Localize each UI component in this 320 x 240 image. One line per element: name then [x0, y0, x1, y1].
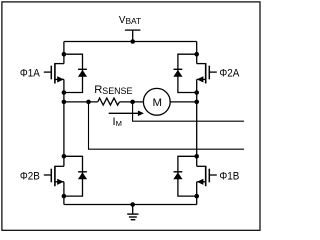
junction Q1B drain/diode	[194, 154, 199, 159]
wire top rail	[64, 41, 197, 43]
junction Q1A drain/diode	[62, 52, 67, 57]
ground	[127, 202, 138, 220]
VBAT terminal bar	[125, 29, 140, 31]
junction sense tap left	[86, 100, 91, 105]
wire left leg lower (source Q2B to rail)	[63, 182, 65, 205]
junction Q2B drain/diode	[62, 154, 67, 159]
diode D2A branch wires	[178, 54, 197, 92]
transistor Phi2B (bottom-left MOSFET)	[44, 166, 64, 186]
junction Q2A source/diode	[194, 90, 199, 95]
transistor Phi1B (bottom-right MOSFET)	[197, 166, 217, 186]
wire left leg upper (drain lead Q1A)	[63, 42, 65, 64]
diode D1B	[173, 172, 182, 179]
wire sense tap upper (from RSENSE right to edge)	[133, 102, 244, 121]
wire right leg upper (drain lead Q2A)	[196, 42, 198, 64]
junction Q2A drain/diode	[194, 52, 199, 57]
current arrow IM	[109, 111, 144, 117]
svg-text:M: M	[153, 97, 163, 109]
svg-text:Φ1B: Φ1B	[219, 170, 239, 182]
wire bottom rail	[64, 204, 197, 206]
wire mid left	[64, 101, 98, 103]
svg-text:IM: IM	[113, 116, 122, 128]
junction Q1B source/diode	[194, 194, 199, 199]
diode D1A	[78, 69, 87, 76]
wire right leg lower (source Q1B to rail)	[196, 182, 198, 205]
transistor Phi1A (top-left MOSFET)	[44, 63, 64, 83]
diode D2B	[78, 172, 87, 179]
diode D1A branch wires	[64, 54, 83, 92]
wire motor to right leg	[170, 101, 197, 103]
wire sense tap lower (from RSENSE left to edge)	[89, 102, 245, 149]
svg-text:Φ1A: Φ1A	[20, 67, 41, 79]
junction left leg / mid wire	[62, 100, 67, 105]
junction right leg / mid wire	[194, 100, 199, 105]
diode D2A	[173, 69, 182, 76]
diode D1B branch wires	[178, 156, 197, 196]
junction Q1A source/diode	[62, 90, 67, 95]
diode D2B branch wires	[64, 156, 83, 196]
resistor RSENSE	[98, 98, 120, 105]
svg-text:VBAT: VBAT	[119, 15, 141, 26]
svg-text:Φ2B: Φ2B	[20, 170, 40, 182]
motor M1	[143, 88, 170, 115]
junction VBAT-rail	[130, 39, 135, 44]
wire right leg middle (source Q2A to drain Q1B)	[196, 79, 198, 166]
junction sense tap right	[130, 100, 135, 105]
wire VBAT drop	[132, 30, 134, 41]
wire resistor to motor	[120, 101, 144, 103]
transistor Phi2A (top-right MOSFET)	[197, 63, 217, 83]
junction Q2B source/diode	[62, 194, 67, 199]
svg-text:Φ2A: Φ2A	[219, 67, 240, 79]
svg-text:RSENSE: RSENSE	[94, 84, 132, 96]
wire left leg middle (source Q1A to drain Q2B)	[63, 79, 65, 166]
